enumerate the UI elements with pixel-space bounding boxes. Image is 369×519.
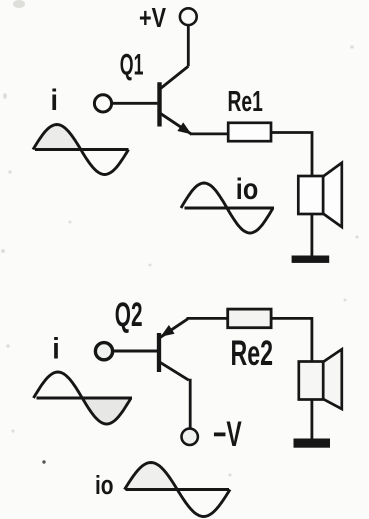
resistor Re2 bbox=[228, 309, 271, 328]
speaker (top) bbox=[298, 163, 342, 227]
wire: speaker to ground (bottom) bbox=[310, 400, 313, 440]
wire: input terminal to Q2 base bbox=[113, 350, 157, 353]
speaker (bottom) bbox=[299, 349, 342, 409]
wire: speaker to ground (top) bbox=[310, 214, 313, 256]
input sine wave (bottom) axis line bbox=[37, 397, 133, 400]
svg-text:io: io bbox=[236, 172, 258, 206]
wire: Q2 collector to -V terminal bbox=[189, 380, 190, 428]
ground (bottom) bbox=[294, 439, 331, 448]
input terminal (top) bbox=[94, 95, 111, 112]
wire: Re2 to speaker (bottom) bbox=[271, 318, 312, 361]
svg-text:Re2: Re2 bbox=[231, 334, 274, 373]
wire: Q1 emitter to Re1 bbox=[190, 132, 228, 135]
output sine wave (top) curve bbox=[181, 183, 273, 233]
svg-text:Re1: Re1 bbox=[228, 86, 263, 118]
terminal -V bbox=[182, 429, 198, 445]
input sine wave (top) axis line bbox=[35, 148, 129, 151]
output sine wave (bottom) curve bbox=[125, 463, 231, 517]
resistor Re1 bbox=[228, 123, 271, 141]
svg-text:i: i bbox=[52, 332, 60, 366]
wire: input terminal to Q1 base bbox=[112, 102, 158, 105]
input sine wave (top) curve bbox=[33, 125, 129, 175]
svg-text:+V: +V bbox=[139, 2, 166, 33]
input sine wave (bottom), shaded trough lobe bbox=[82, 398, 131, 424]
wire: Q2 emitter to Re2 bbox=[187, 317, 229, 320]
output sine wave (bottom) axis line bbox=[126, 488, 230, 491]
svg-text:−V: −V bbox=[213, 415, 242, 454]
transistor Q1 bbox=[160, 66, 192, 134]
svg-text:Q1: Q1 bbox=[120, 49, 144, 82]
input sine wave (bottom) curve bbox=[34, 372, 132, 424]
svg-text:Q2: Q2 bbox=[115, 295, 143, 334]
terminal +V bbox=[180, 8, 197, 25]
svg-text:i: i bbox=[51, 84, 59, 118]
wire: +V terminal to Q1 collector bbox=[187, 26, 190, 66]
svg-text:io: io bbox=[95, 471, 114, 500]
input terminal (bottom) bbox=[95, 343, 112, 360]
ground (top) bbox=[292, 256, 330, 263]
transistor Q2 bbox=[159, 319, 189, 380]
input sine wave (top), shaded peak lobe bbox=[33, 125, 81, 150]
output sine wave (bottom), shaded peak lobe bbox=[125, 463, 178, 490]
wire: Re1 to speaker (top) bbox=[271, 133, 312, 177]
output sine wave (top) axis line bbox=[185, 207, 275, 210]
